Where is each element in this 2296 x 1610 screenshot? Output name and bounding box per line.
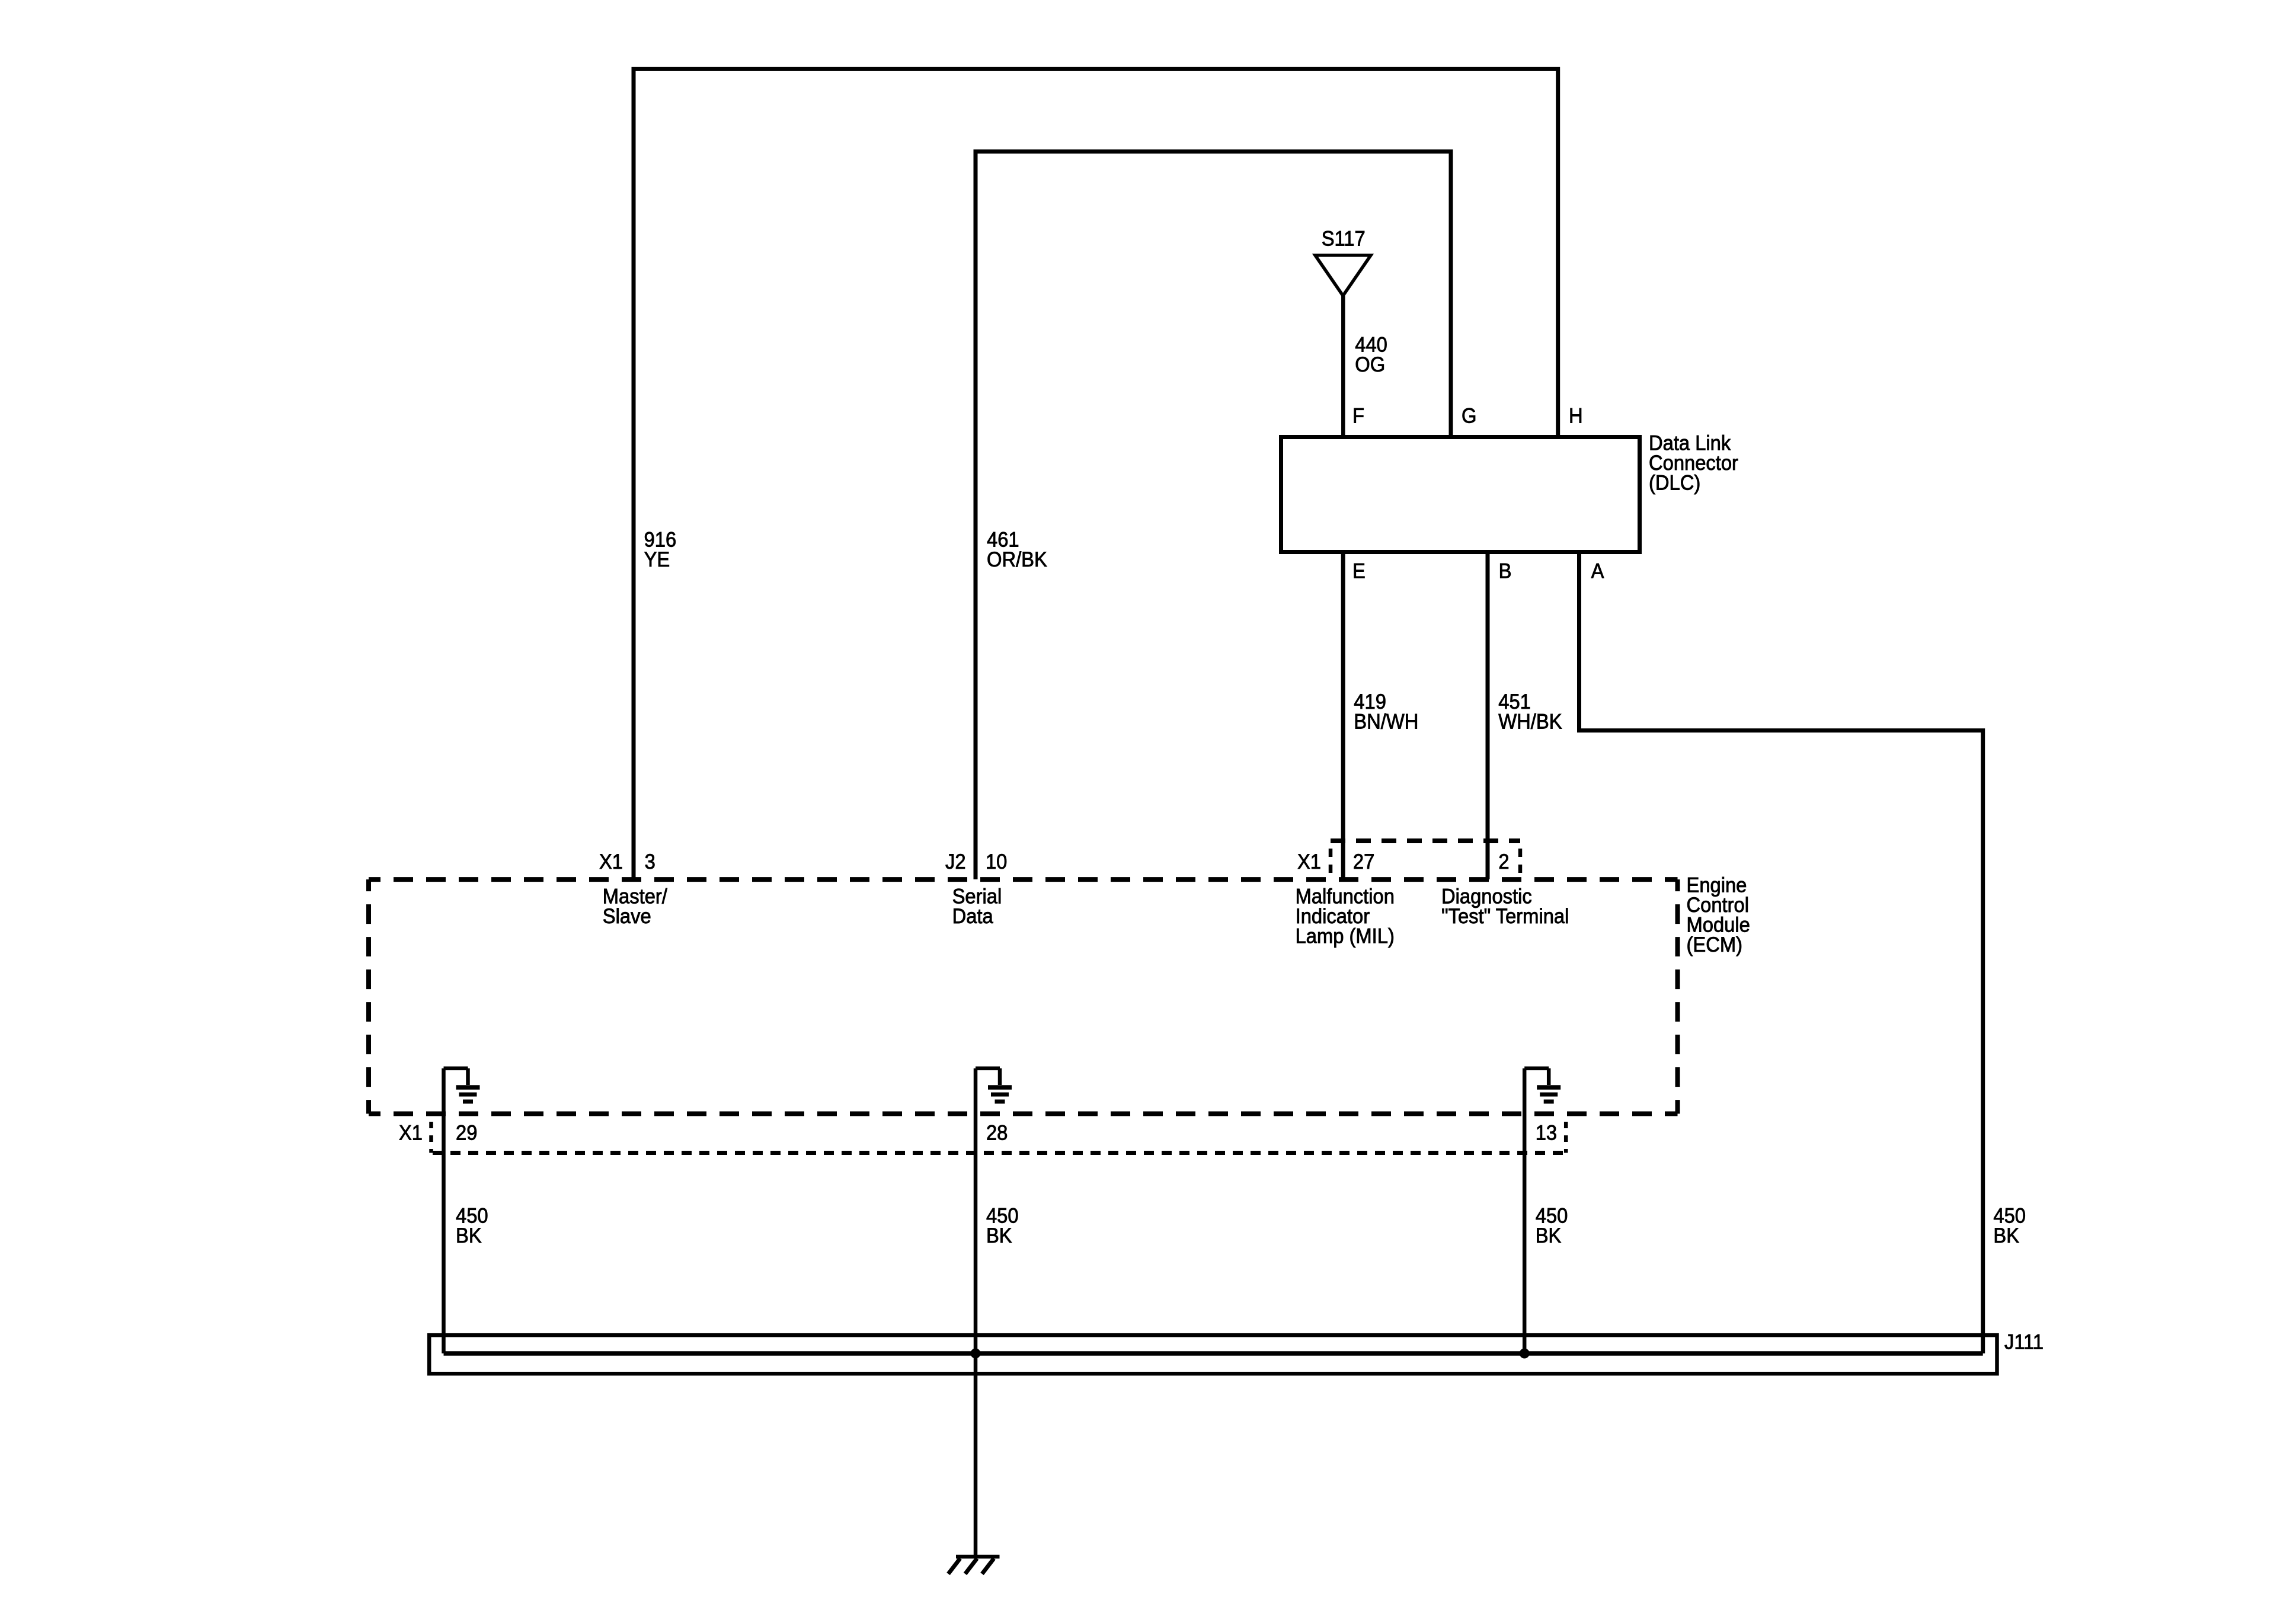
svg-text:YE: YE: [644, 548, 670, 571]
svg-text:J2: J2: [945, 850, 966, 873]
svg-text:BN/WH: BN/WH: [1354, 710, 1418, 733]
svg-text:WH/BK: WH/BK: [1498, 710, 1562, 733]
svg-text:29: 29: [456, 1122, 477, 1145]
svg-text:Lamp (MIL): Lamp (MIL): [1296, 925, 1395, 948]
svg-text:G: G: [1462, 404, 1476, 427]
svg-text:BK: BK: [456, 1224, 482, 1247]
svg-text:E: E: [1352, 560, 1366, 583]
svg-text:OG: OG: [1355, 353, 1385, 376]
svg-text:X1: X1: [399, 1122, 423, 1145]
svg-text:BK: BK: [1993, 1224, 2019, 1247]
svg-text:Data: Data: [952, 905, 993, 928]
svg-text:X1: X1: [599, 850, 623, 873]
svg-text:J111: J111: [2004, 1330, 2044, 1353]
svg-text:BK: BK: [1536, 1224, 1562, 1247]
svg-text:H: H: [1569, 404, 1583, 427]
svg-text:(ECM): (ECM): [1687, 933, 1743, 956]
svg-text:BK: BK: [986, 1224, 1012, 1247]
svg-text:X1: X1: [1297, 850, 1321, 873]
svg-text:28: 28: [986, 1122, 1008, 1145]
svg-text:2: 2: [1498, 850, 1509, 873]
svg-text:A: A: [1591, 560, 1604, 583]
svg-text:OR/BK: OR/BK: [987, 548, 1047, 571]
svg-text:13: 13: [1536, 1122, 1557, 1145]
svg-text:Slave: Slave: [603, 905, 651, 928]
svg-text:(DLC): (DLC): [1649, 472, 1700, 495]
svg-text:S117: S117: [1322, 228, 1366, 251]
svg-text:"Test" Terminal: "Test" Terminal: [1441, 905, 1569, 928]
svg-text:10: 10: [986, 850, 1007, 873]
svg-text:3: 3: [645, 850, 655, 873]
svg-text:B: B: [1499, 560, 1512, 583]
svg-text:27: 27: [1353, 850, 1374, 873]
svg-text:F: F: [1352, 404, 1364, 427]
